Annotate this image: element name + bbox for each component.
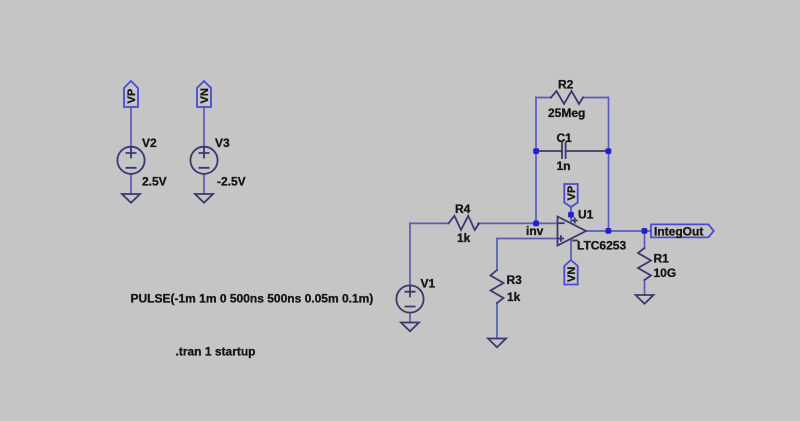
svg-text:inv: inv [526,224,544,238]
svg-text:VN: VN [566,267,578,282]
svg-text:VP: VP [566,186,578,201]
svg-text:1k: 1k [507,290,521,304]
svg-text:R1: R1 [654,252,670,266]
svg-text:PULSE(-1m 1m 0 500ns 500ns 0.0: PULSE(-1m 1m 0 500ns 500ns 0.05m 0.1m) [131,292,374,306]
svg-text:VP: VP [126,89,138,104]
svg-text:V3: V3 [215,136,230,150]
svg-text:R4: R4 [455,202,471,216]
svg-text:R2: R2 [558,78,574,92]
svg-text:-2.5V: -2.5V [217,175,246,189]
svg-text:C1: C1 [557,131,573,145]
svg-text:.tran 1 startup: .tran 1 startup [176,345,256,359]
svg-text:1n: 1n [557,159,571,173]
svg-text:25Meg: 25Meg [548,106,585,120]
svg-text:U1: U1 [578,208,594,222]
svg-text:R3: R3 [507,273,523,287]
svg-text:2.5V: 2.5V [142,175,167,189]
svg-text:V2: V2 [142,136,157,150]
svg-text:IntegOut: IntegOut [654,225,703,239]
svg-text:1k: 1k [457,231,471,245]
svg-text:VN: VN [199,88,211,103]
svg-text:V1: V1 [421,277,436,291]
svg-text:10G: 10G [654,266,677,280]
svg-text:LTC6253: LTC6253 [577,239,626,253]
